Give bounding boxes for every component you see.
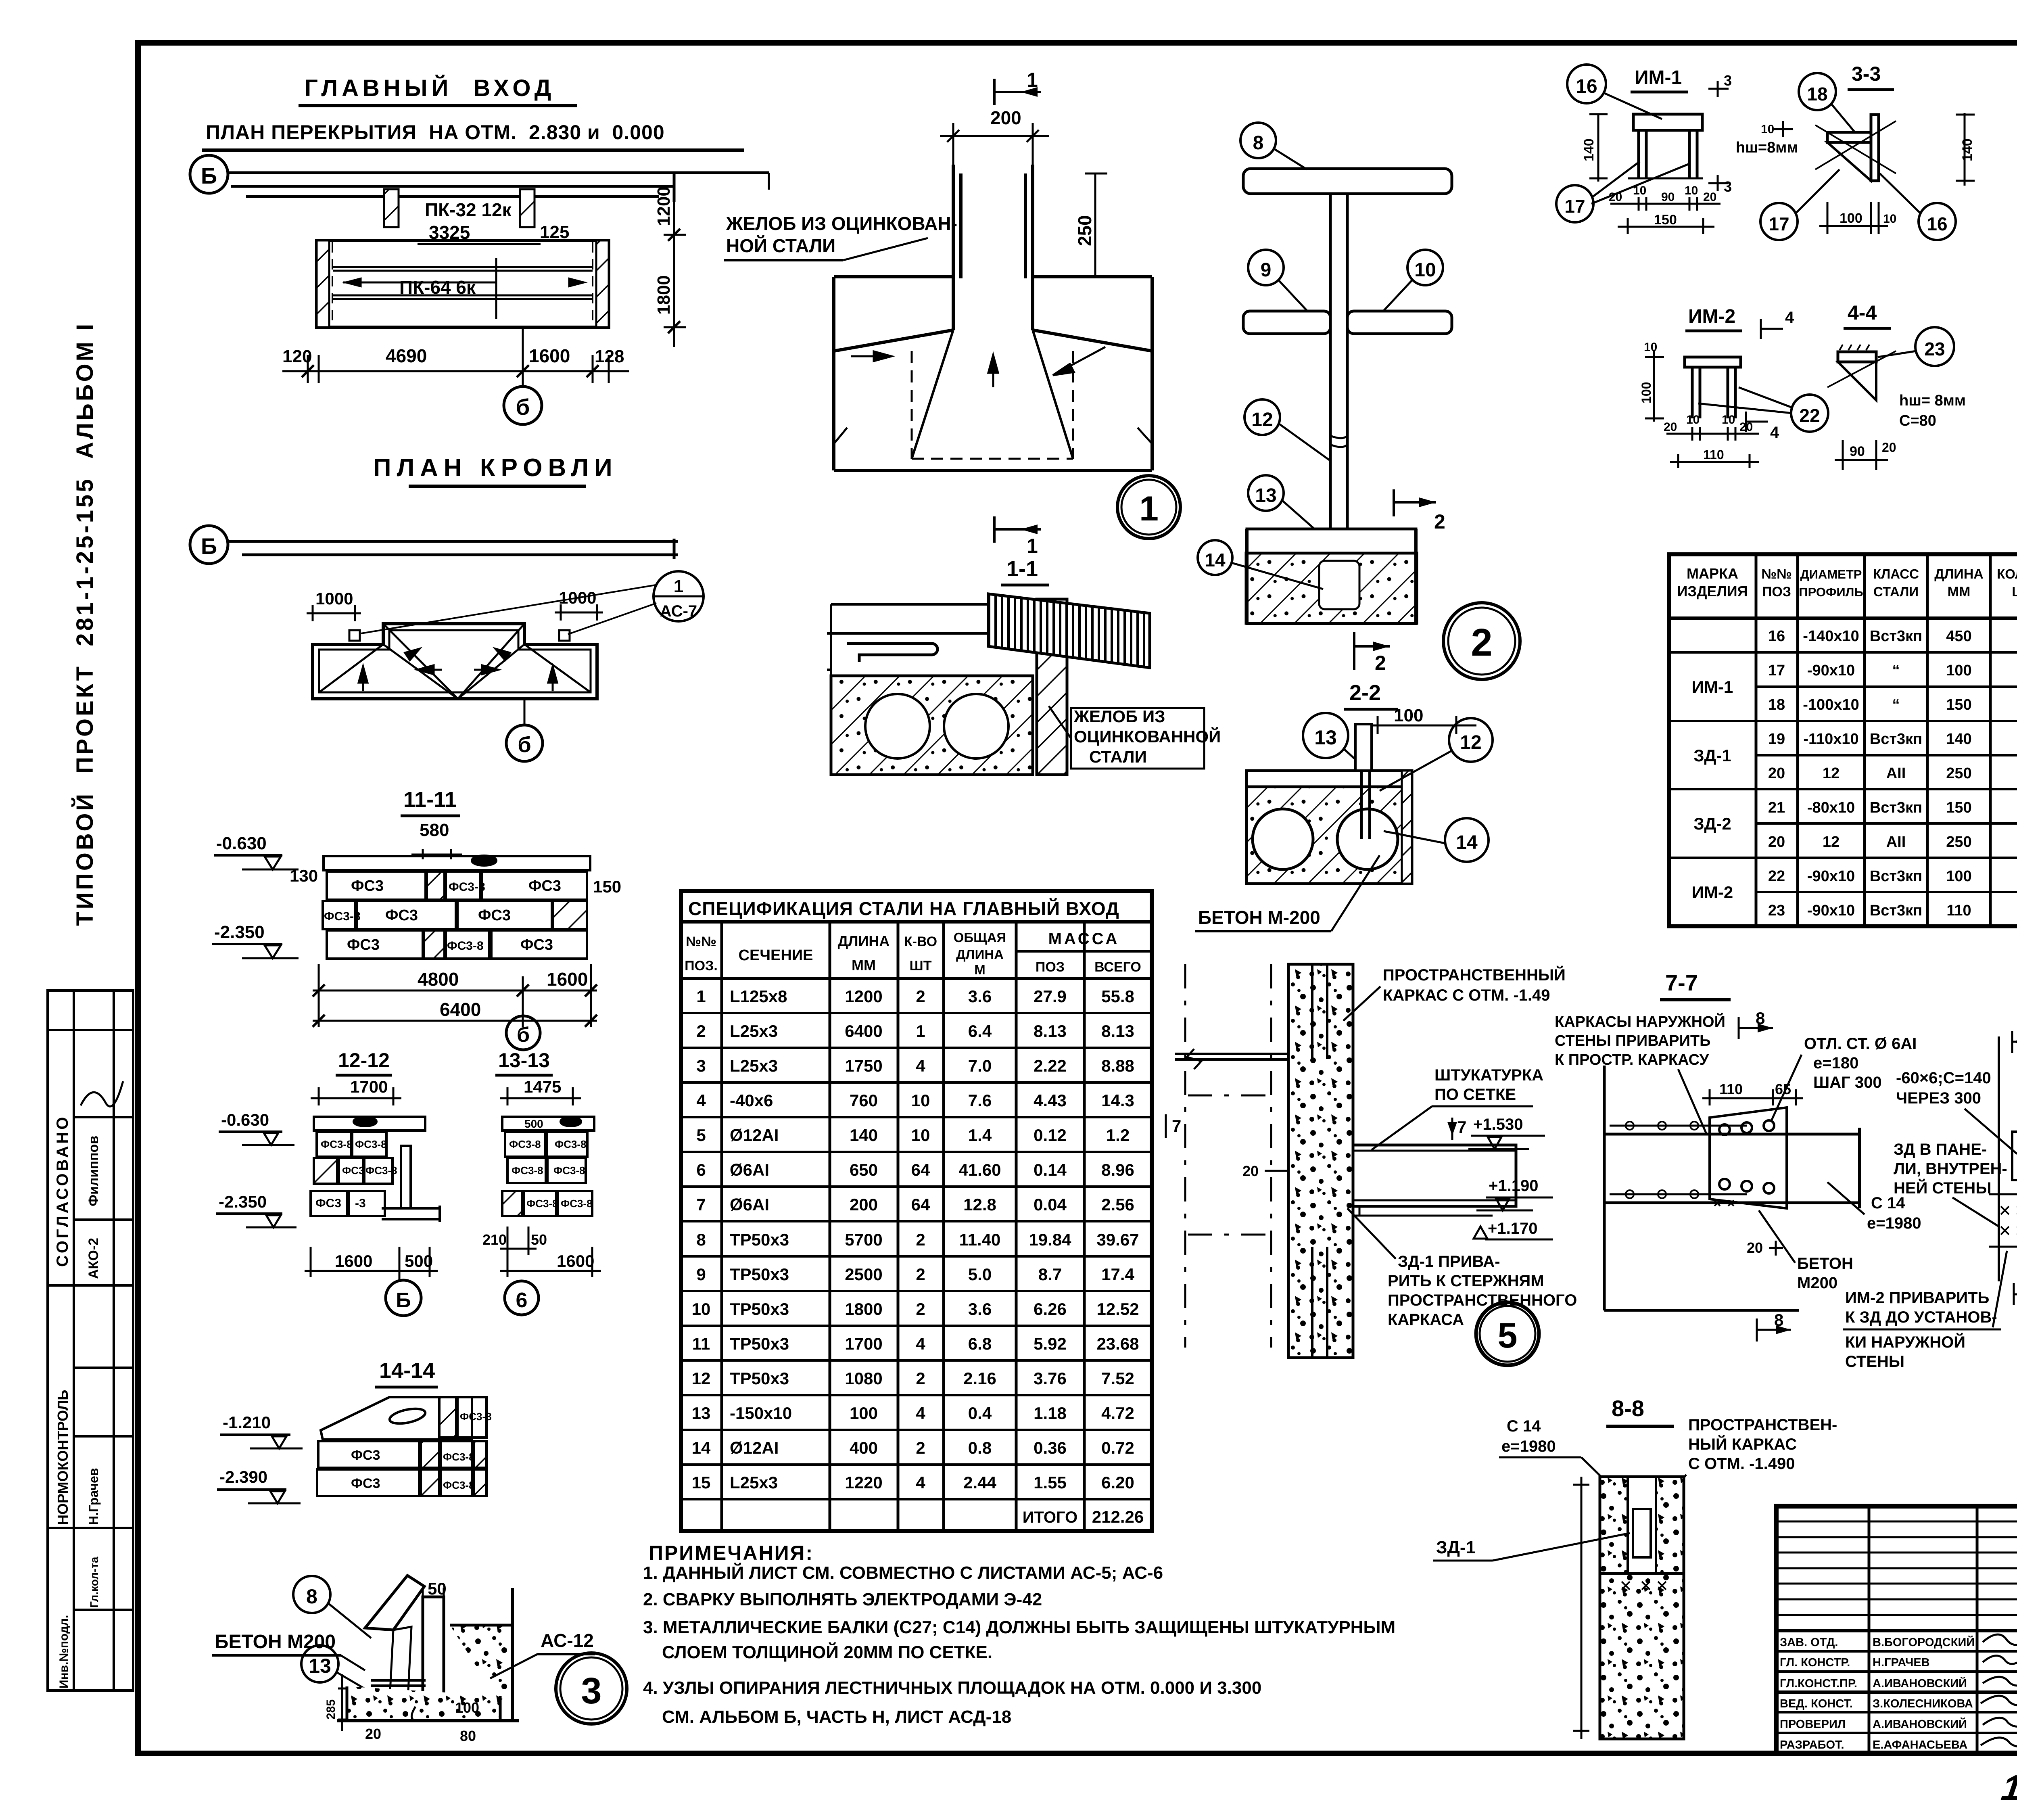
svg-text:Вст3кп: Вст3кп: [1870, 628, 1922, 645]
svg-text:100: 100: [455, 1699, 479, 1716]
svg-text:27.9: 27.9: [1034, 987, 1067, 1006]
svg-text:23: 23: [1768, 902, 1785, 919]
svg-text:2: 2: [1471, 621, 1492, 664]
embedded parts table (ИМ-1, ЗД-1, ЗД-2, ИМ-2): [1669, 554, 2017, 926]
elevation +1.530 (detail 5): [1468, 1116, 1545, 1149]
svg-text:15: 15: [692, 1473, 711, 1492]
svg-text:ФС3: ФС3: [351, 1476, 380, 1491]
13-13 block stack: [502, 1117, 594, 1216]
svg-text:100: 100: [1946, 868, 1971, 885]
axis circle 6 (roof plan): [506, 699, 543, 761]
svg-text:23: 23: [1924, 339, 1945, 359]
svg-text:13: 13: [309, 1655, 331, 1677]
svg-text:ТР50x3: ТР50x3: [730, 1265, 789, 1284]
axis circle 6 below floor plan: [504, 327, 542, 424]
svg-text:СПЕЦИФИКАЦИЯ СТАЛИ НА ГЛАВНЫЙ: СПЕЦИФИКАЦИЯ СТАЛИ НА ГЛАВНЫЙ ВХОД: [688, 898, 1119, 919]
svg-text:1. ДАННЫЙ ЛИСТ СМ. СОВМЕСТ: 1. ДАННЫЙ ЛИСТ СМ. СОВМЕСТНО С ЛИСТАМИ А…: [643, 1562, 1163, 1583]
svg-text:РАЗРАБОТ.: РАЗРАБОТ.: [1780, 1739, 1844, 1751]
svg-text:2: 2: [696, 1022, 706, 1041]
svg-text:210: 210: [482, 1231, 507, 1248]
svg-text:КАРКАС С ОТМ. -1.49: КАРКАС С ОТМ. -1.49: [1383, 986, 1550, 1004]
svg-text:С 14: С 14: [1507, 1417, 1541, 1435]
svg-text:0.12: 0.12: [1034, 1126, 1067, 1145]
svg-text:е=180: е=180: [1813, 1054, 1858, 1072]
roof dim 1000 left: [307, 589, 361, 621]
svg-text:ФС3: ФС3: [351, 878, 384, 894]
svg-text:8.13: 8.13: [1034, 1022, 1067, 1041]
elevation -2.350 (12-12): [216, 1192, 296, 1227]
svg-text:10: 10: [1685, 184, 1698, 197]
svg-text:-80x10: -80x10: [1807, 799, 1855, 816]
svg-text:1: 1: [1027, 535, 1038, 557]
svg-text:14: 14: [1456, 832, 1478, 853]
node circle 5: [1476, 1302, 1539, 1365]
svg-text:12: 12: [1823, 765, 1840, 782]
svg-text:ИМ-2: ИМ-2: [1692, 883, 1733, 902]
svg-text:3.76: 3.76: [1034, 1369, 1067, 1388]
svg-text:64: 64: [911, 1160, 930, 1179]
svg-text:4690: 4690: [386, 345, 427, 366]
svg-text:-2.390: -2.390: [219, 1467, 267, 1486]
svg-text:-90x10: -90x10: [1807, 902, 1855, 919]
svg-text:11.40: 11.40: [959, 1230, 1001, 1249]
svg-text:65: 65: [1775, 1081, 1791, 1097]
svg-text:СМ. АЛЬБОМ Б, ЧАСТЬ Н, ЛИСТ А: СМ. АЛЬБОМ Б, ЧАСТЬ Н, ЛИСТ АСД-18: [662, 1707, 1011, 1727]
detail 5 beam: [1353, 1145, 1516, 1216]
svg-text:НОРМОКОНТРОЛЬ: НОРМОКОНТРОЛЬ: [54, 1390, 71, 1525]
svg-text:2-2: 2-2: [1349, 681, 1381, 705]
detail 3-3 title: [1848, 63, 1894, 90]
svg-text:СЕЧЕНИЕ: СЕЧЕНИЕ: [739, 947, 813, 964]
section mark 7 (left): [1166, 1114, 1181, 1138]
svg-text:ФС3-8: ФС3-8: [553, 1164, 585, 1176]
svg-text:ШТ: ШТ: [2012, 584, 2017, 599]
svg-text:ПРОСТРАНСТВЕННЫЙ: ПРОСТРАНСТВЕННЫЙ: [1383, 965, 1566, 984]
svg-text:11: 11: [692, 1334, 710, 1353]
svg-text:ВЕД. КОНСТ.: ВЕД. КОНСТ.: [1780, 1697, 1853, 1710]
svg-text:10: 10: [1414, 259, 1436, 281]
svg-text:ИЗДЕЛИЯ: ИЗДЕЛИЯ: [1677, 583, 1748, 600]
svg-text:10: 10: [911, 1091, 930, 1110]
svg-text:17.4: 17.4: [1101, 1265, 1134, 1284]
svg-text:7-7: 7-7: [1665, 970, 1698, 995]
svg-text:13: 13: [692, 1404, 711, 1423]
detail ИМ-2 drawing: [1685, 357, 1741, 418]
svg-text:1600: 1600: [547, 969, 588, 990]
svg-text:5.92: 5.92: [1034, 1334, 1067, 1353]
detail ИМ-1 title: [1631, 67, 1688, 92]
svg-text:ФС3: ФС3: [520, 936, 553, 953]
svg-text:К ПРОСТР. КАРКАСУ: К ПРОСТР. КАРКАСУ: [1555, 1051, 1709, 1068]
svg-text:2.56: 2.56: [1101, 1195, 1134, 1214]
svg-text:1-1: 1-1: [1006, 557, 1038, 581]
svg-text:80: 80: [460, 1728, 476, 1744]
svg-text:б: б: [516, 394, 530, 420]
svg-text:3.6: 3.6: [968, 1300, 992, 1319]
svg-text:8.13: 8.13: [1101, 1022, 1134, 1041]
svg-text:450: 450: [1946, 628, 1971, 645]
middle panel detail (between 8-8 and 9-9): [1989, 1036, 2017, 1281]
svg-text:ТР50x3: ТР50x3: [730, 1230, 789, 1249]
svg-text:ФС3-8: ФС3-8: [447, 939, 484, 953]
section title 2-2: [1344, 681, 1398, 709]
svg-text:20: 20: [1882, 440, 1896, 455]
svg-text:hш=8мм: hш=8мм: [1736, 139, 1798, 156]
svg-text:0.8: 0.8: [968, 1438, 992, 1457]
svg-text:3.6: 3.6: [968, 987, 992, 1006]
svg-text:8: 8: [1774, 1310, 1783, 1329]
svg-text:200: 200: [850, 1195, 878, 1214]
svg-text:КИ НАРУЖНОЙ: КИ НАРУЖНОЙ: [1845, 1333, 1965, 1351]
svg-text:А.ИВАНОВСКИЙ: А.ИВАНОВСКИЙ: [1873, 1676, 1967, 1690]
svg-text:12.8: 12.8: [963, 1195, 996, 1214]
svg-text:7: 7: [1172, 1116, 1181, 1135]
svg-text:-2.350: -2.350: [214, 922, 265, 942]
svg-text:1: 1: [674, 577, 683, 596]
svg-text:7.52: 7.52: [1101, 1369, 1134, 1388]
svg-text:1700: 1700: [845, 1334, 882, 1353]
svg-text:-60×6;С=140: -60×6;С=140: [1896, 1069, 1991, 1087]
elevation -1.210 (14-14): [220, 1413, 303, 1448]
title: План перекрытия на отм. 2.830 и 0.000: [202, 121, 744, 150]
svg-text:М: М: [974, 962, 986, 977]
section title 12-12: [336, 1049, 392, 1075]
svg-text:ФС3-8: ФС3-8: [321, 1138, 353, 1150]
dims 4800 / 1600 and 6400: [313, 964, 597, 1027]
svg-text:ФС3: ФС3: [385, 907, 418, 924]
svg-text:Вст3кп: Вст3кп: [1870, 902, 1922, 919]
svg-text:140: 140: [1946, 731, 1971, 748]
svg-text:ФС3-8: ФС3-8: [355, 1138, 387, 1150]
pipe stand: middle horizontal pipes: [1243, 311, 1452, 334]
svg-text:19: 19: [1768, 731, 1785, 748]
funnel: section mark 1 bottom: [994, 516, 1041, 557]
svg-text:0.14: 0.14: [1034, 1160, 1067, 1179]
svg-text:Вст3кп: Вст3кп: [1870, 799, 1922, 816]
svg-text:ОБЩАЯ: ОБЩАЯ: [954, 930, 1006, 945]
svg-text:ИМ-2 ПРИВАРИТЬ: ИМ-2 ПРИВАРИТЬ: [1845, 1289, 1989, 1307]
svg-text:5: 5: [696, 1126, 706, 1145]
svg-text:-110x10: -110x10: [1803, 731, 1858, 748]
section mark 4 (ИМ-2): [1746, 309, 1794, 441]
svg-text:ФС3: ФС3: [342, 1164, 364, 1176]
svg-text:1475: 1475: [524, 1077, 561, 1096]
elevation -0.630: [214, 834, 299, 869]
detail 5: wall with beam: [1185, 964, 1271, 1348]
detail 3-3 drawing (bracket): [1815, 115, 1896, 181]
left margin approval table: [48, 990, 133, 1690]
roof dim 1000 right: [555, 588, 603, 621]
svg-text:4: 4: [916, 1056, 925, 1075]
svg-text:+1.530: +1.530: [1473, 1116, 1523, 1133]
svg-text:5700: 5700: [845, 1230, 882, 1249]
svg-text:4: 4: [1770, 424, 1779, 441]
svg-text:Гл.кол-та: Гл.кол-та: [88, 1557, 100, 1608]
svg-text:100: 100: [1840, 211, 1862, 226]
svg-text:СТЕНЫ: СТЕНЫ: [1845, 1353, 1904, 1371]
svg-text:285: 285: [324, 1699, 338, 1720]
svg-text:С=80: С=80: [1899, 412, 1936, 429]
svg-text:1700: 1700: [350, 1077, 388, 1096]
svg-text:КЛАСС: КЛАСС: [1873, 566, 1919, 581]
svg-text:2: 2: [1434, 510, 1445, 533]
7-7 bolted bracket: [1710, 1107, 1787, 1208]
svg-text:ФС3-8: ФС3-8: [555, 1138, 587, 1150]
svg-text:ПРИМЕЧАНИЯ:: ПРИМЕЧАНИЯ:: [649, 1542, 814, 1564]
svg-text:2: 2: [916, 1438, 925, 1457]
svg-text:4.72: 4.72: [1101, 1404, 1134, 1423]
svg-text:100: 100: [1394, 706, 1423, 725]
section mark 8 (top, 7-7): [1739, 1009, 1773, 1039]
svg-text:2: 2: [916, 987, 925, 1006]
svg-text:ИТОГО: ИТОГО: [1023, 1509, 1078, 1526]
svg-text:1800: 1800: [654, 275, 674, 315]
svg-text:ВСЕГО: ВСЕГО: [1094, 959, 1141, 975]
svg-text:7: 7: [1457, 1118, 1466, 1137]
svg-text:14.3: 14.3: [1101, 1091, 1134, 1110]
section title 1-1: [1001, 557, 1049, 585]
dim 580: [411, 820, 462, 859]
svg-text:АКО-2: АКО-2: [86, 1238, 101, 1279]
svg-text:В.БОГОРОДСКИЙ: В.БОГОРОДСКИЙ: [1873, 1635, 1975, 1649]
svg-text:22: 22: [1768, 868, 1785, 885]
svg-text:Е.АФАНАСЬЕВА: Е.АФАНАСЬЕВА: [1873, 1739, 1967, 1751]
detail 4-4 drawing: [1827, 345, 1896, 400]
svg-text:1: 1: [916, 1022, 925, 1041]
svg-text:250: 250: [1946, 765, 1971, 782]
svg-text:10: 10: [1722, 413, 1735, 426]
detail 5 floor slab left: [1175, 1049, 1288, 1069]
svg-text:20: 20: [365, 1726, 381, 1742]
detail 8-8 title: [1606, 1396, 1674, 1426]
svg-text:МАРКА: МАРКА: [1687, 565, 1738, 582]
svg-text:6.8: 6.8: [968, 1334, 992, 1353]
svg-text:А.ИВАНОВСКИЙ: А.ИВАНОВСКИЙ: [1873, 1717, 1967, 1731]
svg-text:ФС3-8: ФС3-8: [443, 1479, 475, 1491]
svg-text:-40x6: -40x6: [730, 1091, 773, 1110]
svg-text:650: 650: [850, 1160, 878, 1179]
svg-text:1000: 1000: [315, 589, 353, 608]
callout circle 13 (pipe base): [1248, 475, 1323, 537]
label ИМ-2 приварить к ЗД доучастков-ки наружной стены: [1843, 1251, 2007, 1371]
axis circle Б (floor plan): [190, 155, 228, 193]
pipe stand: callout circle 8: [1240, 123, 1307, 169]
svg-text:ТР50x3: ТР50x3: [730, 1369, 789, 1388]
right vertical dimension 1200 / 1800: [664, 173, 769, 347]
svg-text:20: 20: [1739, 420, 1753, 434]
axis circle Б below 12-12: [386, 1277, 421, 1316]
svg-text:Инв.№подл.: Инв.№подл.: [57, 1615, 71, 1688]
svg-text:8: 8: [306, 1585, 317, 1608]
svg-text:1800: 1800: [845, 1300, 882, 1319]
svg-text:2. СВАРКУ ВЫПОЛНЯТЬ ЭЛЕКТРОД: 2. СВАРКУ ВЫПОЛНЯТЬ ЭЛЕКТРОДАМИ Э-42: [643, 1590, 1042, 1609]
svg-text:ЗД-2: ЗД-2: [1693, 814, 1731, 833]
callout circle 17 (3-3): [1760, 169, 1840, 240]
svg-text:0.36: 0.36: [1034, 1438, 1067, 1457]
vertical stamp: ТИПОВОЙ ПРОЕКТ 281-1-25-155 АЛЬБОМ I: [72, 322, 98, 926]
svg-text:150: 150: [1946, 696, 1971, 713]
svg-text:ФС3-8: ФС3-8: [509, 1138, 541, 1150]
svg-text:С ОТМ. -1.490: С ОТМ. -1.490: [1688, 1455, 1795, 1473]
label ЗД-1 приварить к стержням пространственного каркаса: [1347, 1208, 1577, 1329]
svg-text:140: 140: [1581, 138, 1597, 161]
dim 1475 (13-13): [500, 1077, 581, 1105]
svg-text:“: “: [1892, 696, 1900, 713]
label Желоб из оцинкованной стали (funnel): [724, 213, 957, 260]
svg-text:50: 50: [531, 1231, 547, 1248]
svg-text:1: 1: [1027, 69, 1038, 91]
svg-text:МАССА: МАССА: [1048, 930, 1120, 948]
svg-text:6.26: 6.26: [1034, 1300, 1067, 1319]
svg-text:-140x10: -140x10: [1803, 628, 1859, 645]
svg-text:16: 16: [1576, 76, 1597, 97]
svg-text:ГЛАВНЫЙ ВХОД: ГЛАВНЫЙ ВХОД: [305, 75, 555, 101]
svg-text:1: 1: [696, 987, 706, 1006]
svg-text:СТЕНЫ ПРИВАРИТЬ: СТЕНЫ ПРИВАРИТЬ: [1555, 1032, 1710, 1049]
callout circle 9: [1248, 250, 1307, 311]
label -60x6 с=140 через 300: [1880, 1069, 2017, 1154]
svg-text:18: 18: [1768, 696, 1785, 713]
svg-text:3. МЕТАЛЛИЧЕСКИЕ БАЛКИ (С27; С: 3. МЕТАЛЛИЧЕСКИЕ БАЛКИ (С27; С14) ДОЛЖНЫ…: [643, 1617, 1395, 1637]
svg-text:ТИПОВОЙ ПРОЕКТ 281-1-25-155: ТИПОВОЙ ПРОЕКТ 281-1-25-155 АЛЬБОМ I: [72, 322, 98, 926]
svg-text:ММ: ММ: [852, 957, 876, 974]
svg-text:17: 17: [1768, 662, 1785, 679]
section title 13-13: [495, 1049, 553, 1075]
svg-text:ГЛ.КОНСТ.ПР.: ГЛ.КОНСТ.ПР.: [1780, 1677, 1857, 1690]
detail ИМ-1 drawing (bench section): [1628, 114, 1703, 178]
girder of axis Б (floor plan): [228, 173, 769, 202]
svg-text:Н.Грачев: Н.Грачев: [86, 1468, 101, 1525]
svg-text:1220: 1220: [845, 1473, 882, 1492]
svg-text:ГЛ. КОНСТР.: ГЛ. КОНСТР.: [1780, 1656, 1850, 1669]
svg-text:128: 128: [595, 347, 624, 366]
svg-text:64: 64: [911, 1195, 930, 1214]
node circle 2: [1443, 603, 1520, 679]
svg-text:55.8: 55.8: [1101, 987, 1134, 1006]
svg-text:К ЗД ДО УСТАНОВ-: К ЗД ДО УСТАНОВ-: [1845, 1308, 1997, 1326]
roof slope arrows: [359, 649, 557, 691]
callout circle 12: [1244, 399, 1329, 460]
dim 250 (funnel right): [1085, 173, 1107, 277]
svg-text:+1.170: +1.170: [1488, 1220, 1537, 1237]
svg-text:КАРКАСЫ НАРУЖНОЙ: КАРКАСЫ НАРУЖНОЙ: [1555, 1012, 1725, 1030]
svg-text:500: 500: [524, 1118, 543, 1130]
svg-text:14: 14: [1205, 550, 1226, 570]
node circle 3: [556, 1653, 627, 1724]
node circle 1: [1117, 476, 1180, 539]
title block: responsible persons: [1780, 1635, 1975, 1751]
elevation +1.190 (detail 5): [1476, 1177, 1553, 1210]
elevation -0.630 (12-12): [219, 1110, 294, 1145]
dim 100 (2-2): [1370, 706, 1476, 734]
svg-text:140: 140: [850, 1126, 878, 1145]
svg-text:1: 1: [1139, 489, 1159, 528]
title block frame: [1776, 1506, 2017, 1753]
svg-text:ФС3: ФС3: [351, 1448, 380, 1463]
svg-text:б: б: [518, 733, 531, 757]
АС-7 anchor squares on roof: [349, 630, 360, 641]
svg-text:212.26: 212.26: [1092, 1507, 1144, 1526]
svg-text:2: 2: [1375, 652, 1386, 674]
svg-text:0.72: 0.72: [1101, 1438, 1134, 1457]
svg-text:Н.ГРАЧЕВ: Н.ГРАЧЕВ: [1873, 1656, 1930, 1669]
svg-text:Б: Б: [396, 1289, 411, 1312]
svg-text:100: 100: [850, 1404, 878, 1423]
label С14 е=1980 (8-8): [1499, 1417, 1618, 1493]
svg-text:5: 5: [1498, 1315, 1518, 1355]
svg-text:10: 10: [692, 1300, 711, 1319]
svg-text:ТР50x3: ТР50x3: [730, 1334, 789, 1353]
svg-text:Вст3кп: Вст3кп: [1870, 868, 1922, 885]
svg-text:ММ: ММ: [1948, 584, 1971, 600]
pipe stand: top horizontal pipe: [1243, 169, 1452, 194]
svg-text:17: 17: [1769, 213, 1789, 234]
svg-text:4800: 4800: [418, 969, 459, 990]
svg-text:ПРОСТРАНСТВЕН-: ПРОСТРАНСТВЕН-: [1688, 1416, 1837, 1434]
svg-text:ШАГ 300: ШАГ 300: [1813, 1074, 1882, 1091]
svg-text:400: 400: [850, 1438, 878, 1457]
svg-text:90: 90: [1661, 190, 1675, 204]
svg-text:ПРОФИЛЬ: ПРОФИЛЬ: [1799, 585, 1863, 599]
label пространственный каркас с отм.-1.490 (8-8): [1654, 1416, 1837, 1517]
dim 20 (detail 5): [1242, 1163, 1289, 1179]
axis circle Б (roof plan): [190, 526, 228, 564]
svg-text:ИМ-1: ИМ-1: [1692, 677, 1733, 696]
svg-text:БЕТОН: БЕТОН: [1797, 1255, 1853, 1273]
svg-text:ФС3-8: ФС3-8: [449, 880, 485, 894]
svg-text:ФС3-8: ФС3-8: [443, 1451, 475, 1463]
svg-text:1.2: 1.2: [1106, 1126, 1130, 1145]
detail 7-7 drawing: [1604, 1066, 1860, 1310]
svg-text:-0.630: -0.630: [216, 834, 267, 853]
svg-text:АС-7: АС-7: [660, 602, 697, 620]
svg-text:Б: Б: [201, 163, 217, 188]
callout circle 17 (ИМ-1): [1556, 161, 1690, 222]
svg-text:20: 20: [1664, 420, 1677, 434]
svg-text:-90x10: -90x10: [1807, 662, 1855, 679]
svg-text:ЖЕЛОБ ИЗ: ЖЕЛОБ ИЗ: [1073, 707, 1165, 726]
pipe stand: vertical pipe: [1330, 194, 1347, 529]
svg-text:КОЛ-ВО: КОЛ-ВО: [1997, 566, 2017, 581]
2-2 drawing: [1247, 724, 1412, 884]
label бетон М-200: [1195, 855, 1380, 931]
svg-text:№№: №№: [686, 934, 716, 949]
svg-text:150: 150: [1654, 212, 1677, 228]
callout circle 23 (4-4): [1878, 327, 1954, 366]
svg-text:1750: 1750: [845, 1056, 882, 1075]
callout circle 8 (foundation): [293, 1576, 371, 1638]
svg-text:11-11: 11-11: [403, 788, 457, 812]
svg-text:7.0: 7.0: [968, 1056, 992, 1075]
svg-text:13: 13: [1314, 726, 1337, 749]
svg-text:21: 21: [1768, 799, 1785, 816]
svg-text:3: 3: [1724, 178, 1732, 195]
callout circle 16 (3-3): [1880, 173, 1956, 240]
svg-text:АС-12: АС-12: [541, 1630, 594, 1651]
svg-text:АII: АII: [1886, 834, 1906, 850]
svg-text:4: 4: [1785, 309, 1794, 326]
title: План кровли: [373, 454, 618, 486]
14-14 slab stack: [317, 1397, 487, 1496]
section mark 9 (bottom): [2014, 1275, 2017, 1305]
svg-text:М200: М200: [1797, 1274, 1837, 1292]
svg-text:ЧЕРЕЗ 300: ЧЕРЕЗ 300: [1896, 1089, 1981, 1107]
detail 5 wall strip: [1288, 964, 1353, 1358]
svg-text:12: 12: [692, 1369, 711, 1388]
svg-text:12: 12: [1460, 732, 1481, 753]
svg-text:1200: 1200: [654, 186, 674, 226]
svg-text:8.88: 8.88: [1101, 1056, 1134, 1075]
